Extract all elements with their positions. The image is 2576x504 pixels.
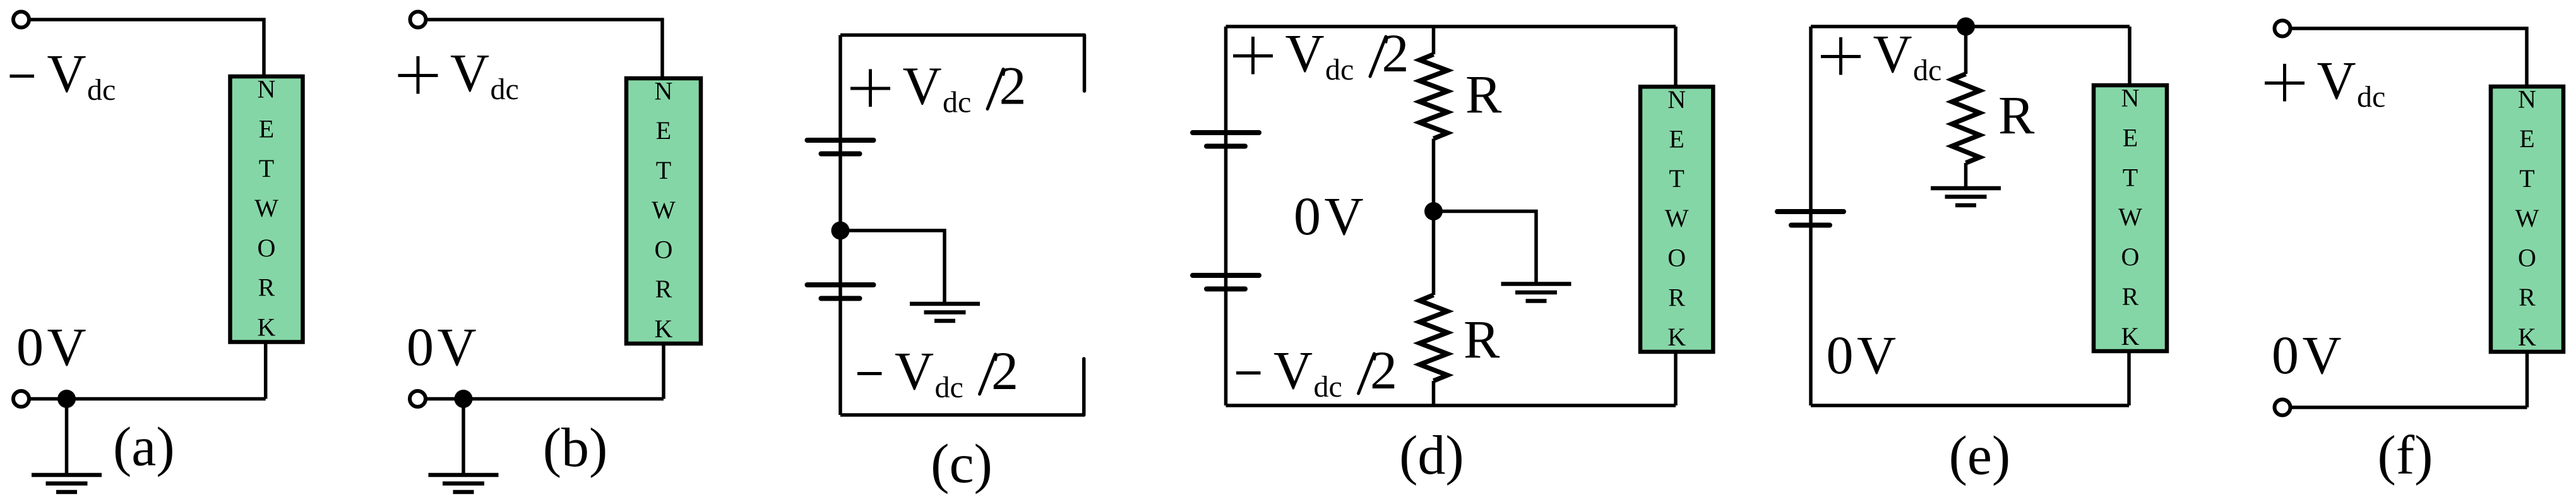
svg-text:V: V xyxy=(1273,340,1313,400)
svg-text:V: V xyxy=(1285,23,1325,83)
battery Vdc/2 lower (c) xyxy=(808,285,874,299)
svg-text:K: K xyxy=(1667,323,1686,351)
wire below R2 (d) xyxy=(1432,381,1436,405)
ground (d) xyxy=(1501,284,1571,301)
svg-text:2: 2 xyxy=(1382,23,1409,83)
svg-text:O: O xyxy=(258,234,276,262)
label -Vdc/2 (d) xyxy=(1236,340,1397,404)
wire top (c) xyxy=(840,33,1085,37)
node junction (b) xyxy=(455,390,473,408)
wire R to ground (e) xyxy=(1964,163,1968,188)
svg-text:V: V xyxy=(47,316,86,377)
svg-text:(b): (b) xyxy=(543,417,608,479)
resistor R lower (d) xyxy=(1420,295,1448,381)
wire mid branch (d) xyxy=(1432,139,1436,296)
wire top (d) xyxy=(1226,25,1676,28)
wire ground branch (c) xyxy=(840,231,945,303)
svg-text:(e): (e) xyxy=(1949,426,2011,487)
label -Vdc/2 (c) xyxy=(857,340,1018,404)
wire bottom (f) xyxy=(2290,352,2527,407)
svg-text:W: W xyxy=(254,194,278,222)
svg-text:W: W xyxy=(2515,204,2539,232)
battery Vdc/2 upper (c) xyxy=(808,140,874,154)
resistor R upper (d) xyxy=(1420,54,1448,139)
svg-text:R: R xyxy=(258,273,275,302)
wire left (e) xyxy=(1809,27,1813,405)
node junction (e) xyxy=(1957,18,1975,36)
wire bottom (b) xyxy=(426,344,664,399)
wire top (a) xyxy=(29,20,264,76)
svg-text:R: R xyxy=(1998,85,2035,145)
svg-text:K: K xyxy=(2518,323,2536,351)
label +Vdc/2 (d) xyxy=(1233,23,1409,87)
svg-text:dc: dc xyxy=(491,73,519,106)
svg-text:O: O xyxy=(1667,244,1686,272)
network box (d) xyxy=(1640,85,1713,352)
svg-text:N: N xyxy=(655,77,673,105)
svg-text:0: 0 xyxy=(2272,325,2299,385)
svg-text:O: O xyxy=(2121,243,2140,271)
svg-text:dc: dc xyxy=(1325,53,1354,87)
wire bottom (d) xyxy=(1226,404,1676,407)
svg-text:(d): (d) xyxy=(1399,425,1464,486)
svg-text:R: R xyxy=(2122,282,2139,311)
resistor R (e) xyxy=(1952,74,1980,163)
label 0V (f) xyxy=(2272,325,2342,385)
wire network leads (e) xyxy=(2129,27,2130,405)
terminal 0V (b) xyxy=(410,391,426,407)
svg-text:E: E xyxy=(656,116,671,145)
ground (a) xyxy=(32,475,102,492)
label +Vdc (e) xyxy=(1821,23,1941,87)
svg-text:V: V xyxy=(1325,186,1364,246)
battery Vdc (e) xyxy=(1777,212,1844,225)
label +Vdc (f) xyxy=(2265,50,2385,114)
wire bottom (e) xyxy=(1811,404,2129,407)
svg-text:K: K xyxy=(258,313,276,342)
label 0V (a) xyxy=(16,316,86,377)
battery Vdc/2 lower (d) xyxy=(1193,275,1259,289)
wire left (c) xyxy=(838,35,842,416)
svg-text:V: V xyxy=(1873,23,1912,84)
wire to R1 (d) xyxy=(1432,27,1436,54)
svg-text:T: T xyxy=(1669,164,1684,193)
svg-text:R: R xyxy=(655,275,672,303)
svg-text:0: 0 xyxy=(1827,325,1854,385)
svg-text:V: V xyxy=(2317,50,2356,111)
svg-text:E: E xyxy=(259,114,274,143)
label 0V (e) xyxy=(1827,325,1897,385)
svg-text:dc: dc xyxy=(1913,54,1941,87)
svg-text:N: N xyxy=(2518,85,2536,114)
label 0V (d) xyxy=(1294,186,1364,246)
ground (b) xyxy=(429,475,499,492)
svg-text:O: O xyxy=(655,236,673,264)
svg-text:V: V xyxy=(903,56,942,116)
svg-text:T: T xyxy=(2123,163,2138,191)
terminal +Vdc input (a) xyxy=(13,12,29,28)
svg-text:(f): (f) xyxy=(2378,425,2433,486)
svg-text:E: E xyxy=(2123,123,2138,152)
svg-text:0: 0 xyxy=(1294,186,1321,246)
svg-text:E: E xyxy=(1669,125,1684,153)
label 0V (b) xyxy=(407,316,477,377)
svg-text:(c): (c) xyxy=(931,434,993,495)
wire top (e) xyxy=(1811,25,2130,28)
ground (e) xyxy=(1931,188,2001,205)
svg-text:W: W xyxy=(652,196,676,224)
svg-text:W: W xyxy=(2118,203,2142,231)
wire top (b) xyxy=(426,20,662,78)
svg-text:V: V xyxy=(47,43,86,104)
svg-text:0: 0 xyxy=(16,316,44,377)
svg-text:V: V xyxy=(2303,325,2342,385)
svg-text:E: E xyxy=(2519,124,2534,153)
svg-text:R: R xyxy=(1668,283,1685,311)
wire bottom (a) xyxy=(29,342,266,399)
network box (a) xyxy=(230,75,303,342)
label +Vdc (b) xyxy=(398,42,519,106)
svg-text:W: W xyxy=(1665,204,1689,232)
svg-text:T: T xyxy=(656,156,671,184)
svg-text:(a): (a) xyxy=(113,417,175,478)
svg-text:K: K xyxy=(655,315,673,343)
node junction (a) xyxy=(57,390,76,408)
svg-text:V: V xyxy=(438,316,477,377)
svg-text:dc: dc xyxy=(87,73,116,107)
label +Vdc/2 (c) xyxy=(850,56,1027,119)
network box (b) xyxy=(626,77,701,344)
svg-text:N: N xyxy=(258,75,276,104)
svg-text:R: R xyxy=(2519,283,2536,311)
wire stub to network + (c) xyxy=(1083,35,1087,92)
node 0V junction (c) xyxy=(832,222,850,240)
svg-text:2: 2 xyxy=(999,56,1027,116)
svg-text:O: O xyxy=(2518,244,2536,272)
wire top (f) xyxy=(2290,28,2527,87)
terminal 0V (a) xyxy=(13,391,29,407)
wire left (d) xyxy=(1224,27,1228,405)
svg-text:V: V xyxy=(895,340,934,401)
battery Vdc/2 upper (d) xyxy=(1193,133,1259,147)
svg-text:2: 2 xyxy=(991,340,1018,401)
wire ground branch (d) xyxy=(1434,212,1537,283)
wire network leads (d) xyxy=(1674,27,1678,405)
label -Vdc (a) xyxy=(10,43,116,107)
svg-text:N: N xyxy=(2121,84,2140,112)
svg-text:R: R xyxy=(1465,64,1502,124)
terminal +Vdc input (b) xyxy=(410,12,426,28)
svg-text:dc: dc xyxy=(1314,370,1342,404)
ground (c) xyxy=(910,304,980,321)
wire ground stem (a) xyxy=(65,399,69,476)
wire to R (e) xyxy=(1964,27,1968,74)
svg-text:dc: dc xyxy=(2357,80,2385,114)
svg-text:2: 2 xyxy=(1370,340,1397,400)
network box (e) xyxy=(2094,84,2167,352)
svg-text:V: V xyxy=(450,42,489,103)
wire bottom (c) xyxy=(840,413,1084,417)
wire stub to network - (c) xyxy=(1082,359,1086,415)
svg-text:dc: dc xyxy=(943,86,971,119)
wire ground stem (b) xyxy=(462,399,465,476)
terminal +Vdc input (f) xyxy=(2275,21,2291,37)
svg-text:0: 0 xyxy=(407,316,434,377)
svg-text:T: T xyxy=(259,154,274,183)
terminal 0V (f) xyxy=(2275,400,2291,416)
svg-text:T: T xyxy=(2519,164,2534,193)
svg-text:V: V xyxy=(1857,325,1896,385)
svg-text:dc: dc xyxy=(935,371,963,404)
svg-text:K: K xyxy=(2121,322,2140,351)
svg-text:R: R xyxy=(1464,309,1500,369)
node 0V junction (d) xyxy=(1424,202,1443,220)
network box (f) xyxy=(2491,85,2563,352)
svg-text:N: N xyxy=(1667,85,1686,114)
